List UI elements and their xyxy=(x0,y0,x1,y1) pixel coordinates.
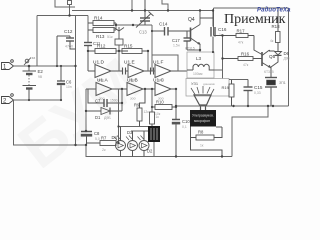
wire U1.A out down xyxy=(121,89,123,111)
op-amp U1.C xyxy=(153,78,176,101)
resistor R11 xyxy=(150,107,160,127)
switch S1 xyxy=(24,56,35,65)
diode D1 feedback xyxy=(86,108,122,121)
LED D2 xyxy=(138,131,154,157)
antenna WA1 xyxy=(114,27,124,51)
svg-text:РадиоТеХа: РадиоТеХа xyxy=(257,8,291,14)
svg-text:D6: D6 xyxy=(284,51,290,56)
resistor R12 xyxy=(95,44,128,54)
wire emitter to C17 xyxy=(187,49,200,51)
svg-text:за: за xyxy=(32,56,36,60)
svg-text:0,1: 0,1 xyxy=(182,125,187,129)
capacitor C12 xyxy=(57,29,76,66)
resistor R13 xyxy=(88,28,116,40)
wire right return xyxy=(232,106,268,157)
svg-text:динамик: динамик xyxy=(203,82,215,86)
svg-text:C12: C12 xyxy=(64,29,73,34)
resistor R8 xyxy=(191,127,223,157)
wire L3 right to head xyxy=(214,69,223,71)
wire left drop xyxy=(36,16,38,67)
svg-text:C17: C17 xyxy=(172,38,180,43)
svg-text:C16: C16 xyxy=(218,27,227,32)
svg-text:C10: C10 xyxy=(182,119,190,124)
svg-text:U1.D: U1.D xyxy=(93,60,104,66)
svg-text:D3: D3 xyxy=(127,130,133,135)
svg-text:10к: 10к xyxy=(155,112,161,116)
wire second bus xyxy=(37,15,88,17)
wire Q4 emitter xyxy=(199,45,201,53)
resistor R17 xyxy=(214,29,263,55)
terminal 1 xyxy=(2,60,14,71)
svg-text:микрофон: микрофон xyxy=(194,119,210,123)
inductor L3 box xyxy=(187,52,214,78)
capacitor C6 xyxy=(57,66,72,100)
wire top stub a xyxy=(131,0,133,11)
capacitor C16 xyxy=(200,11,227,53)
svg-text:100мк: 100мк xyxy=(193,72,203,76)
connector XS1 top xyxy=(55,0,75,16)
op-amp U1.A xyxy=(86,78,127,101)
capacitor C15 xyxy=(244,80,263,107)
resistor R9 xyxy=(134,89,149,127)
svg-text:0,33: 0,33 xyxy=(254,91,261,95)
trimmer capacitor C13 xyxy=(136,0,154,35)
svg-text:Д9В: Д9В xyxy=(284,57,290,61)
LED D4 xyxy=(112,127,126,157)
svg-text:51к: 51к xyxy=(107,35,113,39)
capacitor C7 feedback xyxy=(88,89,122,107)
transistor Q4 xyxy=(185,17,201,51)
wire right edge xyxy=(288,8,290,106)
svg-text:R16: R16 xyxy=(241,52,250,57)
svg-text:C7: C7 xyxy=(95,99,101,104)
terminal 2 xyxy=(2,94,14,105)
svg-text:D4: D4 xyxy=(112,135,118,140)
resistor R7 xyxy=(87,136,119,153)
wire LED top frame xyxy=(131,130,148,132)
svg-text:U1.C: U1.C xyxy=(153,78,164,84)
svg-text:R13: R13 xyxy=(96,34,105,39)
svg-text:Q4: Q4 xyxy=(188,17,195,23)
op-amp U1.B xyxy=(127,78,155,101)
op-amp U1.E xyxy=(124,60,155,83)
wire top stub hook xyxy=(162,0,168,11)
svg-text:C8: C8 xyxy=(94,131,100,136)
op-amp U1.D xyxy=(88,60,122,83)
wire C14 feed vertical xyxy=(151,25,153,55)
wire U1.E feedback xyxy=(147,51,149,71)
capacitor C10 xyxy=(172,106,190,157)
svg-text:4700: 4700 xyxy=(65,45,73,49)
capacitor C14 xyxy=(152,22,190,36)
resistor R15 xyxy=(116,44,148,54)
svg-text:Ультразвуков.: Ультразвуков. xyxy=(192,114,214,118)
svg-text:Приемник: Приемник xyxy=(224,12,286,27)
svg-text:9В: 9В xyxy=(38,75,43,79)
svg-text:C14: C14 xyxy=(159,22,168,27)
wire Q5 collector to D6 xyxy=(270,50,275,51)
transistor Q5 xyxy=(262,50,276,74)
svg-text:УЗ1: УЗ1 xyxy=(191,81,199,86)
wire terminal 2 to battery xyxy=(14,99,62,101)
wire title box left edge xyxy=(213,8,215,36)
svg-text:Q5: Q5 xyxy=(269,54,276,59)
emitter rays xyxy=(191,86,214,95)
svg-text:2к: 2к xyxy=(102,148,106,152)
svg-text:R8: R8 xyxy=(198,130,204,135)
wire R pair link xyxy=(115,23,117,30)
LED D3 xyxy=(126,130,138,157)
wire ground to bottom bus xyxy=(86,145,232,157)
svg-text:U1.F: U1.F xyxy=(153,60,163,66)
wire U1.A input rail xyxy=(85,89,87,131)
capacitor C17 xyxy=(172,31,191,50)
svg-text:U1.B: U1.B xyxy=(127,78,138,84)
ultrasonic head box UV1 xyxy=(186,79,229,97)
op-amp U1.F xyxy=(153,60,187,83)
watermark diagonal xyxy=(6,46,153,182)
svg-text:D2: D2 xyxy=(147,149,153,154)
wire U1.C out down xyxy=(175,89,177,106)
wire L3 link vertical xyxy=(222,36,224,79)
resistor R14 xyxy=(88,16,116,26)
capacitor C11 xyxy=(84,41,101,71)
svg-text:C6: C6 xyxy=(66,80,72,85)
svg-text:R19: R19 xyxy=(222,85,230,90)
wire R10 left leg xyxy=(151,89,153,107)
coupling cap row1 a xyxy=(123,68,126,75)
svg-text:47к: 47к xyxy=(238,41,244,45)
wire R19 top link xyxy=(229,79,248,81)
svg-text:D1: D1 xyxy=(95,115,101,120)
svg-text:4к: 4к xyxy=(270,39,274,43)
svg-text:R15: R15 xyxy=(124,44,133,49)
wire top bus xyxy=(72,10,214,12)
emitter horn xyxy=(194,95,211,110)
wire left vertical chain xyxy=(87,16,89,43)
svg-text:U1.E: U1.E xyxy=(124,60,135,66)
wire U1.A out long vertical xyxy=(118,89,120,143)
svg-text:Д9Б: Д9Б xyxy=(104,116,111,120)
dark module box xyxy=(148,126,160,157)
svg-text:R14: R14 xyxy=(94,16,103,21)
coupling cap row1 b xyxy=(151,68,154,75)
dark mic box xyxy=(190,110,216,127)
wire mid shelf xyxy=(119,126,149,128)
svg-text:5,0: 5,0 xyxy=(95,137,100,141)
svg-text:R9: R9 xyxy=(134,103,140,108)
svg-text:зоо: зоо xyxy=(130,97,136,101)
battery E2 xyxy=(23,66,44,100)
resistor R19 xyxy=(222,80,235,107)
wire U1.F feedback loop xyxy=(152,55,178,71)
svg-text:1500: 1500 xyxy=(110,99,118,103)
wire ground run left xyxy=(14,100,87,145)
wire U1.D out feedback xyxy=(118,51,120,71)
svg-text:ЗП1: ЗП1 xyxy=(279,81,286,85)
svg-text:10н: 10н xyxy=(66,85,72,89)
svg-text:C13: C13 xyxy=(139,30,147,35)
svg-text:C11: C11 xyxy=(93,41,101,46)
piezo ZQ1 xyxy=(265,67,286,106)
capacitor C8 xyxy=(81,131,100,145)
resistor R18 xyxy=(270,8,280,43)
svg-text:R10: R10 xyxy=(156,100,164,105)
resistor R10 xyxy=(152,100,176,117)
svg-text:Е2: Е2 xyxy=(38,69,44,74)
wire left rail xyxy=(75,16,77,146)
resistor R16 xyxy=(223,52,263,68)
svg-text:47к: 47к xyxy=(243,63,249,67)
wire from terminal 1 xyxy=(14,65,76,67)
svg-text:L3: L3 xyxy=(196,56,202,61)
wire lower mid bus xyxy=(176,105,289,107)
svg-text:КТ315: КТ315 xyxy=(264,70,274,74)
svg-text:U1.A: U1.A xyxy=(97,78,108,84)
svg-text:12к: 12к xyxy=(144,110,150,114)
wire mid top xyxy=(116,24,152,26)
svg-text:1,5н: 1,5н xyxy=(173,44,180,48)
svg-text:R7: R7 xyxy=(101,136,107,141)
svg-text:R17: R17 xyxy=(237,29,246,34)
svg-text:1к: 1к xyxy=(200,144,204,148)
diode D6 xyxy=(271,43,290,68)
svg-text:C15: C15 xyxy=(254,85,263,90)
wire Q4 collector xyxy=(199,11,201,25)
wire title box top xyxy=(214,7,289,9)
